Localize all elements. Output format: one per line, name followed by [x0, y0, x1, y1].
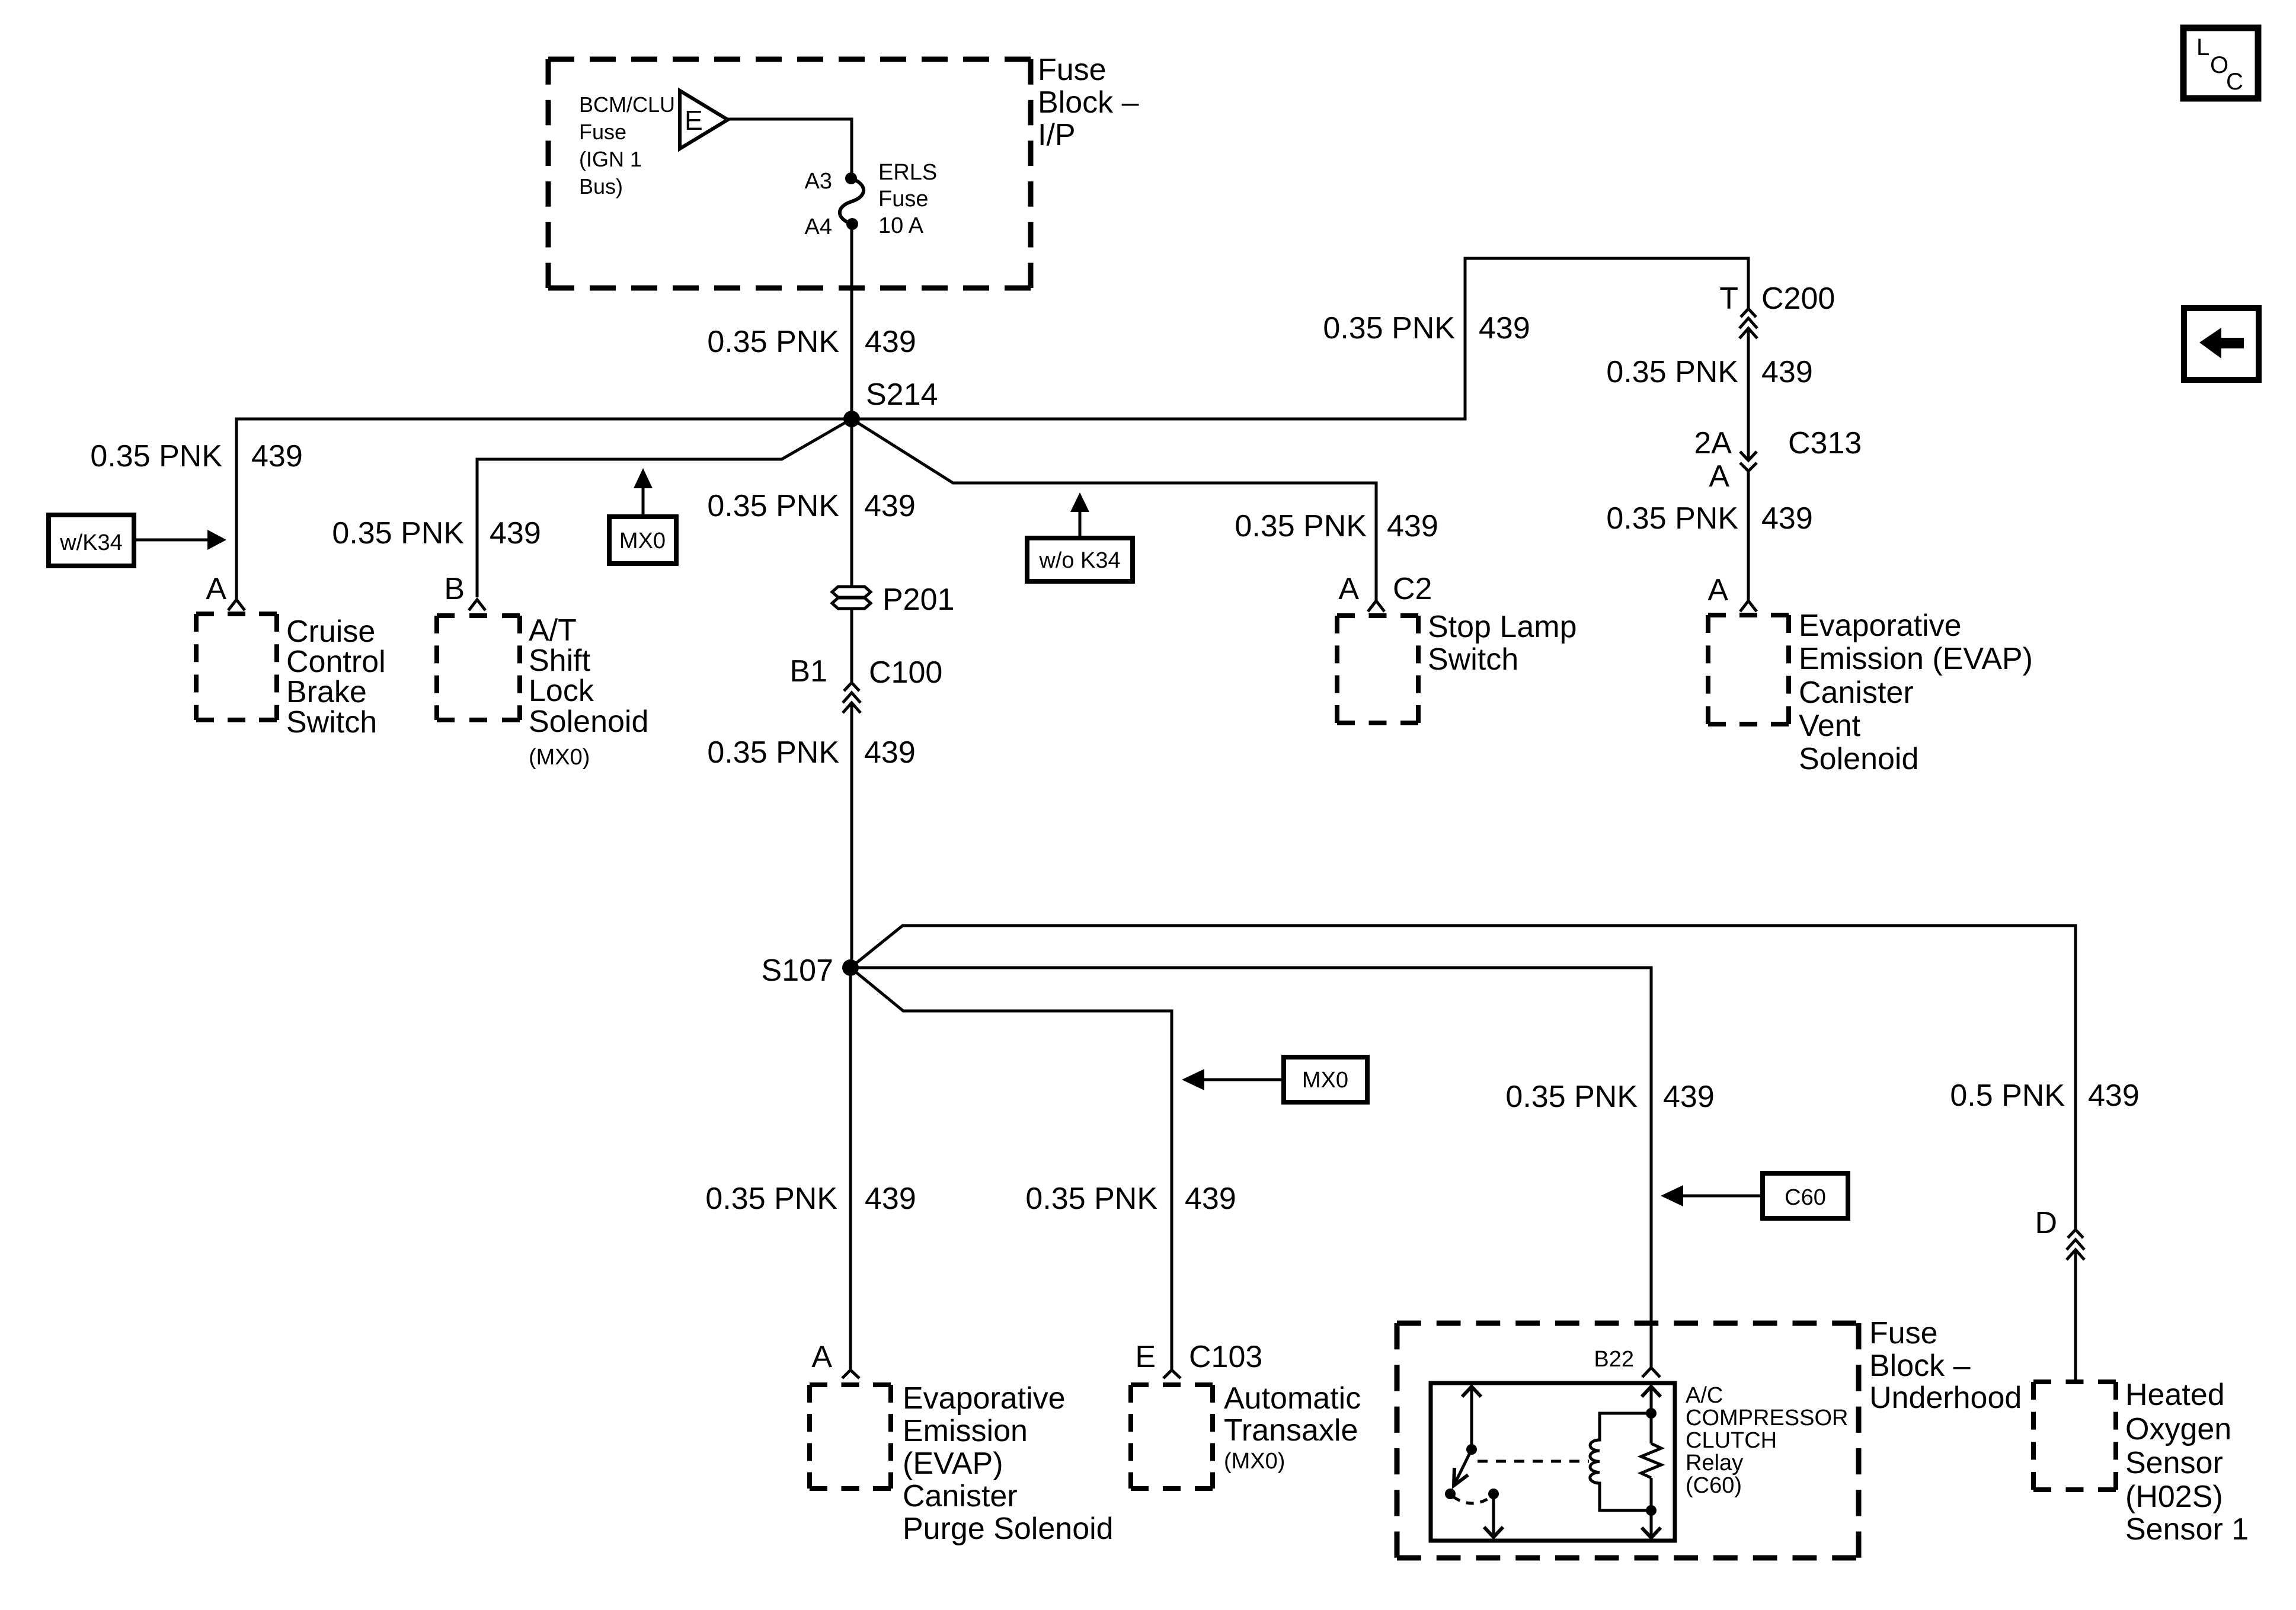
connector chevron purge A [842, 1370, 859, 1378]
wire label 0.35 PNK 439 transaxle branch [1025, 1182, 1236, 1216]
arrow C60 to wire [1661, 1185, 1763, 1206]
svg-text:10 A: 10 A [878, 213, 924, 238]
w/o K34 option box [1027, 538, 1133, 581]
wire label 0.35 PNK 439 below S214 [707, 489, 915, 523]
svg-text:Automatic: Automatic [1224, 1381, 1361, 1416]
svg-text:A3: A3 [805, 169, 832, 194]
svg-text:Block –: Block – [1038, 85, 1139, 120]
svg-text:2A: 2A [1694, 426, 1732, 460]
svg-text:439: 439 [1387, 509, 1438, 543]
svg-text:S214: S214 [866, 377, 938, 412]
svg-text:Sensor 1: Sensor 1 [2125, 1512, 2249, 1547]
svg-text:Evaporative: Evaporative [1799, 609, 1962, 643]
wire label 0.35 PNK 439 above S214 [707, 325, 916, 359]
wire D to heated oxygen sensor box [2074, 1250, 2077, 1382]
wire fuse A4 to splice S214 [850, 224, 853, 419]
svg-text:439: 439 [864, 735, 916, 770]
svg-text:T: T [1719, 281, 1738, 316]
arrow MX0 up to wire [634, 468, 653, 517]
svg-text:A: A [206, 572, 226, 606]
svg-text:0.35 PNK: 0.35 PNK [1606, 501, 1738, 536]
svg-text:CLUTCH: CLUTCH [1686, 1428, 1777, 1453]
svg-text:Canister: Canister [903, 1479, 1018, 1513]
svg-text:439: 439 [864, 489, 916, 523]
svg-text:E: E [685, 105, 703, 136]
svg-text:0.5 PNK: 0.5 PNK [1950, 1078, 2065, 1113]
svg-text:0.35 PNK: 0.35 PNK [707, 735, 839, 770]
svg-text:Canister: Canister [1799, 676, 1914, 710]
EVAP purge solenoid label [903, 1381, 1114, 1546]
junction dot S107 [842, 959, 859, 976]
svg-text:C313: C313 [1788, 426, 1862, 460]
svg-text:(H02S): (H02S) [2125, 1480, 2223, 1514]
svg-text:Fuse: Fuse [1869, 1316, 1938, 1350]
svg-text:C103: C103 [1189, 1340, 1262, 1374]
svg-text:A/T: A/T [529, 613, 577, 648]
svg-text:Brake: Brake [286, 675, 367, 709]
grommet P201 [832, 587, 871, 609]
svg-text:439: 439 [1761, 501, 1813, 536]
svg-text:Heated: Heated [2125, 1378, 2225, 1412]
svg-text:Transaxle: Transaxle [1224, 1413, 1358, 1448]
wire S107 to automatic transaxle [850, 968, 1172, 1370]
wire C313 to EVAP vent solenoid [1747, 471, 1750, 601]
cruise control brake switch label [286, 614, 386, 740]
svg-text:0.35 PNK: 0.35 PNK [1235, 509, 1367, 543]
wire label 0.35 PNK 439 purge branch [705, 1182, 916, 1216]
connector chevron stop lamp A [1368, 601, 1384, 612]
svg-text:w/o K34: w/o K34 [1038, 548, 1120, 573]
fuse block underhood dashed box [1397, 1323, 1859, 1558]
svg-text:B22: B22 [1594, 1347, 1634, 1372]
svg-text:C60: C60 [1785, 1185, 1826, 1210]
connector chevron B22 [1642, 1368, 1660, 1377]
wire triangle to fuse pin A3 [727, 119, 852, 177]
ERLS fuse element [840, 178, 864, 224]
svg-text:(MX0): (MX0) [1224, 1449, 1285, 1474]
svg-text:Fuse: Fuse [579, 120, 626, 144]
svg-text:0.35 PNK: 0.35 PNK [707, 325, 839, 359]
wire S107 to A/C compressor clutch relay [850, 968, 1651, 1368]
svg-text:439: 439 [2088, 1078, 2140, 1113]
relay lower contact arrow [1484, 1489, 1503, 1537]
arrow w/o K34 up to wire [1070, 492, 1089, 538]
junction dot A3 [845, 172, 857, 184]
svg-text:(C60): (C60) [1686, 1473, 1742, 1498]
svg-text:E: E [1135, 1340, 1156, 1374]
svg-text:Vent: Vent [1799, 709, 1861, 743]
svg-text:0.35 PNK: 0.35 PNK [1606, 355, 1738, 389]
heated oxygen sensor box [2033, 1382, 2116, 1490]
relay resistor [1641, 1443, 1661, 1478]
A/C compressor clutch relay box [1431, 1383, 1675, 1541]
svg-text:439: 439 [865, 325, 916, 359]
wire S107 to heated oxygen sensor [850, 926, 2076, 1230]
svg-text:0.35 PNK: 0.35 PNK [332, 516, 464, 550]
wire label 0.35 PNK 439 vent branch [1606, 501, 1812, 536]
LOC icon box [2183, 28, 2258, 98]
svg-text:Evaporative: Evaporative [903, 1381, 1066, 1416]
svg-text:w/K34: w/K34 [59, 530, 123, 555]
svg-text:Underhood: Underhood [1869, 1381, 2022, 1415]
wire C100 to S107 [850, 703, 853, 968]
automatic transaxle label [1224, 1381, 1361, 1474]
svg-text:L: L [2196, 34, 2209, 60]
svg-text:Fuse: Fuse [1038, 53, 1107, 87]
relay coil actuating dashed line [1478, 1460, 1589, 1463]
svg-text:A: A [1707, 573, 1728, 607]
svg-text:MX0: MX0 [1302, 1068, 1348, 1093]
svg-text:I/P: I/P [1038, 118, 1076, 152]
svg-text:439: 439 [490, 516, 541, 550]
svg-text:439: 439 [865, 1182, 916, 1216]
wire label 0.35 PNK 439 A/T branch [332, 516, 541, 550]
svg-text:Solenoid: Solenoid [529, 705, 648, 739]
EVAP purge solenoid box [810, 1385, 891, 1489]
svg-text:C200: C200 [1761, 281, 1835, 316]
svg-text:Emission (EVAP): Emission (EVAP) [1799, 642, 2033, 676]
wire S214 left to cruise control brake switch [236, 419, 852, 600]
wire P201 to C100 [850, 609, 853, 683]
svg-text:0.35 PNK: 0.35 PNK [1025, 1182, 1157, 1216]
cruise control brake switch box [196, 614, 277, 720]
svg-text:Control: Control [286, 645, 386, 679]
svg-text:Purge Solenoid: Purge Solenoid [903, 1512, 1114, 1546]
wire label 0.35 PNK 439 cruise branch [90, 439, 302, 473]
inline connector C313 [1740, 452, 1757, 471]
svg-text:0.35 PNK: 0.35 PNK [1323, 311, 1455, 345]
svg-text:A: A [1709, 459, 1729, 494]
svg-text:MX0: MX0 [619, 529, 666, 553]
svg-text:Lock: Lock [529, 674, 594, 708]
fuse block I/P dashed box [548, 59, 1031, 288]
wire S214 to A/T shift lock solenoid [477, 419, 852, 597]
connector chevron cruise A [228, 600, 245, 610]
wire label 0.35 PNK 439 stop lamp branch [1235, 509, 1438, 543]
inline connector C100 chevrons [843, 683, 861, 713]
svg-text:(EVAP): (EVAP) [903, 1446, 1003, 1481]
svg-text:A4: A4 [805, 215, 832, 239]
connector chevron C103 E [1163, 1370, 1181, 1378]
svg-text:Switch: Switch [286, 705, 377, 740]
svg-text:0.35 PNK: 0.35 PNK [705, 1182, 837, 1216]
svg-text:A: A [811, 1340, 832, 1374]
back arrow icon box [2184, 308, 2259, 380]
relay coil [1590, 1413, 1651, 1510]
svg-text:0.35 PNK: 0.35 PNK [707, 489, 839, 523]
svg-text:ERLS: ERLS [878, 160, 937, 185]
w/K34 option box [49, 515, 134, 566]
svg-text:439: 439 [1663, 1080, 1715, 1114]
inline connector C200 chevrons [1739, 309, 1757, 338]
inline connector D chevrons [2067, 1230, 2084, 1260]
wire S107 down to EVAP purge solenoid [849, 968, 852, 1370]
wire S214 down to P201 [850, 419, 853, 588]
svg-text:(MX0): (MX0) [529, 745, 590, 770]
automatic transaxle box [1131, 1385, 1213, 1489]
wire label 0.35 PNK 439 relay branch [1505, 1080, 1714, 1114]
wire C200 to C313 [1747, 328, 1750, 460]
svg-text:A: A [1338, 572, 1359, 606]
svg-text:Oxygen: Oxygen [2125, 1412, 2231, 1446]
svg-text:439: 439 [1479, 311, 1530, 345]
BCM/CLU fuse source label [579, 92, 675, 199]
svg-text:Sensor: Sensor [2125, 1446, 2223, 1480]
voltage source triangle E [680, 91, 728, 149]
fuse block underhood label [1869, 1316, 2022, 1415]
svg-text:Solenoid: Solenoid [1799, 742, 1918, 776]
svg-text:S107: S107 [762, 953, 833, 988]
A/C compressor clutch relay label [1686, 1383, 1848, 1498]
svg-text:Stop Lamp: Stop Lamp [1428, 610, 1577, 644]
relay switch common arrow [1462, 1387, 1481, 1455]
svg-text:B1: B1 [789, 654, 827, 689]
wire label 0.5 PNK 439 [1950, 1078, 2139, 1113]
stop lamp switch box [1337, 616, 1418, 723]
A/T shift lock solenoid label [529, 613, 648, 770]
svg-text:0.35 PNK: 0.35 PNK [1505, 1080, 1638, 1114]
C60 option box [1763, 1173, 1848, 1218]
relay movable contact arrow [1445, 1449, 1472, 1499]
svg-text:Cruise: Cruise [286, 614, 375, 649]
A/T shift lock solenoid box [437, 616, 520, 720]
svg-text:Relay: Relay [1686, 1451, 1743, 1475]
wire label 0.35 PNK 439 below C100 [707, 735, 915, 770]
heated oxygen sensor label [2125, 1378, 2249, 1547]
junction dot relay top [1646, 1408, 1657, 1419]
svg-text:Switch: Switch [1428, 642, 1518, 677]
svg-text:Bus): Bus) [579, 174, 623, 199]
ERLS fuse label [878, 160, 937, 238]
svg-text:Emission: Emission [903, 1414, 1028, 1448]
svg-text:D: D [2035, 1206, 2057, 1240]
fuse block I/P label [1038, 53, 1139, 152]
stop lamp switch label [1428, 610, 1577, 677]
svg-text:A/C: A/C [1686, 1383, 1723, 1408]
svg-text:439: 439 [1185, 1182, 1236, 1216]
junction dot A4 [846, 218, 858, 230]
arrow MX0 to transaxle wire [1182, 1069, 1284, 1090]
svg-text:B: B [444, 572, 465, 606]
MX0 option box lower [1284, 1057, 1367, 1102]
svg-text:C: C [2226, 69, 2243, 95]
EVAP canister vent solenoid label [1799, 609, 2033, 776]
MX0 option box upper [609, 517, 676, 564]
svg-text:C100: C100 [869, 655, 942, 690]
relay B22 feed with arrows [1642, 1387, 1661, 1538]
svg-text:439: 439 [251, 439, 303, 473]
svg-text:P201: P201 [882, 582, 954, 617]
EVAP canister vent solenoid box [1708, 615, 1789, 724]
svg-text:COMPRESSOR: COMPRESSOR [1686, 1406, 1848, 1430]
junction dot relay bottom [1646, 1505, 1657, 1516]
connector chevron A/T B [469, 600, 485, 610]
wire S214 to stop lamp switch [852, 419, 1376, 601]
wire label 0.35 PNK 439 right riser [1323, 311, 1530, 345]
connector chevron vent A [1740, 601, 1757, 612]
junction dot S214 [843, 411, 860, 427]
relay contact travel dashed arc [1453, 1497, 1491, 1503]
svg-text:BCM/CLU: BCM/CLU [579, 92, 675, 117]
arrow w/K34 to wire [134, 530, 226, 550]
svg-text:(IGN 1: (IGN 1 [579, 147, 642, 171]
svg-text:C2: C2 [1393, 572, 1432, 606]
wire label 0.35 PNK 439 below C200 [1606, 355, 1812, 389]
svg-text:Shift: Shift [529, 644, 591, 678]
svg-text:439: 439 [1761, 355, 1813, 389]
svg-text:Fuse: Fuse [878, 187, 928, 212]
wire S214 right up to C200 [852, 258, 1748, 419]
svg-text:Block –: Block – [1869, 1349, 1971, 1383]
svg-text:0.35 PNK: 0.35 PNK [90, 439, 222, 473]
